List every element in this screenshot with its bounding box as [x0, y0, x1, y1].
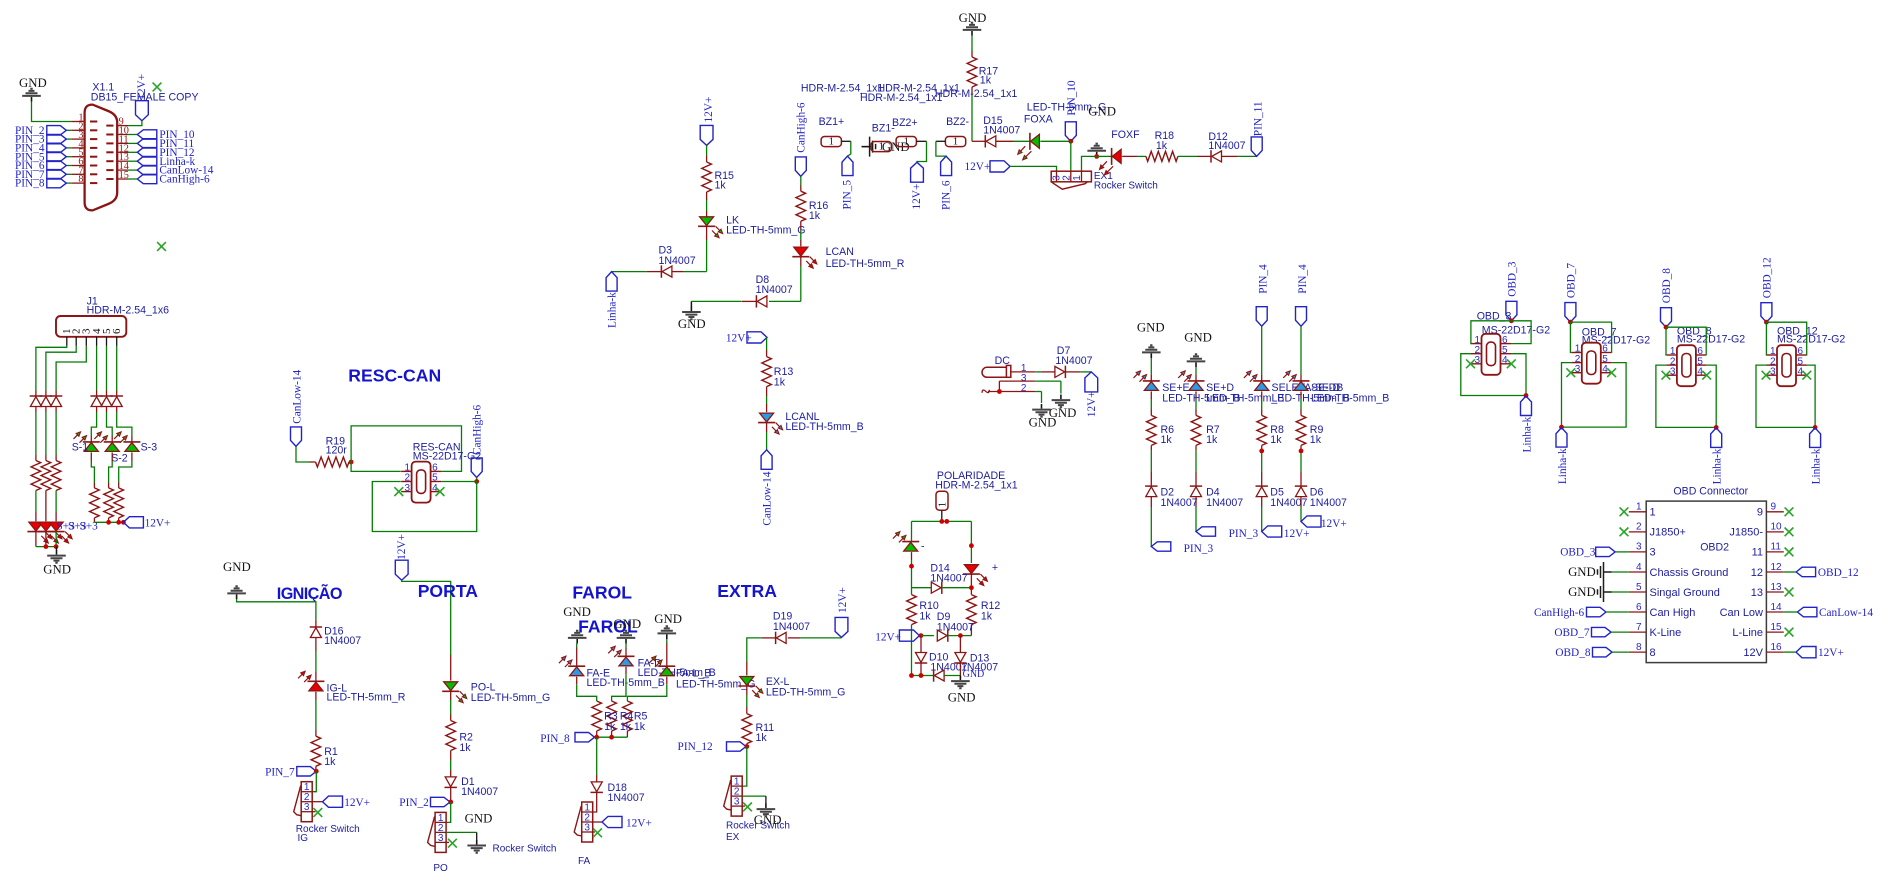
wire to EX-L	[762, 637, 776, 639]
svg-text:4: 4	[1636, 562, 1642, 573]
no-connect X (PO pin 3)	[446, 841, 449, 843]
wire flag to pin 6	[1511, 321, 1531, 344]
svg-text:2: 2	[1636, 522, 1642, 533]
switch Rocker Switch FA	[582, 802, 593, 842]
svg-text:OBD_3: OBD_3	[1506, 261, 1518, 296]
svg-text:12V+: 12V+	[965, 161, 991, 173]
svg-text:S-2: S-2	[111, 453, 128, 465]
svg-text:Rocker Switch: Rocker Switch	[1094, 181, 1158, 192]
svg-text:1k: 1k	[634, 721, 646, 733]
wire	[1195, 367, 1197, 374]
wire pin 2 loop	[1756, 365, 1815, 427]
junction	[1094, 154, 1099, 159]
wire	[35, 407, 37, 413]
wire jog	[111, 452, 113, 461]
pin 4 of J1	[96, 337, 98, 346]
svg-text:HDR-M-2.54_1x6: HDR-M-2.54_1x6	[87, 304, 170, 316]
junction	[919, 633, 924, 638]
wire R10 down	[911, 625, 913, 676]
svg-text:1k: 1k	[1156, 140, 1168, 152]
wire pin 5 loop	[1562, 363, 1627, 428]
svg-text:PORTA: PORTA	[418, 581, 479, 601]
wire	[666, 639, 668, 643]
svg-text:OBD_12: OBD_12	[1761, 257, 1773, 298]
svg-text:Linha-k: Linha-k	[1521, 416, 1533, 452]
resistor (right group 3)	[114, 488, 124, 518]
pin 1 of X1.1	[71, 121, 85, 123]
pin 1 of OBD2	[1629, 511, 1646, 513]
svg-text:Chassis Ground: Chassis Ground	[1650, 567, 1729, 579]
svg-text:1N4007: 1N4007	[461, 786, 498, 798]
svg-text:PIN_5: PIN_5	[842, 180, 854, 210]
wire flag to pin 1	[1471, 321, 1512, 344]
svg-text:3: 3	[405, 483, 411, 494]
wire jog	[625, 667, 627, 675]
net flag Linha-k	[1711, 428, 1722, 448]
ground GND (D8)	[690, 301, 692, 306]
wire D7 to 12V+	[1065, 371, 1080, 373]
wire	[1150, 445, 1152, 450]
svg-text:12V+: 12V+	[145, 518, 171, 530]
svg-text:GND: GND	[43, 563, 71, 577]
svg-text:PIN_6: PIN_6	[940, 180, 952, 210]
wire	[766, 337, 768, 350]
LED SE+E LED-TH-5mm_B	[1143, 380, 1160, 382]
svg-text:1k: 1k	[1206, 434, 1218, 446]
no-connect X (EX pin 3)	[742, 805, 745, 807]
svg-text:PIN_8: PIN_8	[15, 178, 45, 190]
net flag CanHigh-6	[128, 178, 137, 180]
wire 12V+ to EX1 pin 3	[1010, 166, 1057, 171]
svg-text:1N4007: 1N4007	[756, 284, 793, 296]
svg-text:GND: GND	[654, 612, 682, 626]
svg-text:10: 10	[1771, 522, 1783, 533]
svg-text:15: 15	[1771, 622, 1783, 633]
pin 13 of X1.1	[116, 160, 128, 162]
pin 6 of J1	[116, 337, 118, 346]
svg-text:Linha-k: Linha-k	[1712, 448, 1724, 484]
wire	[970, 574, 972, 595]
wire jog	[91, 412, 96, 436]
svg-text:PO: PO	[433, 863, 448, 874]
svg-text:3: 3	[584, 822, 590, 833]
svg-text:8: 8	[1636, 642, 1642, 653]
wire flag to pin 6	[1666, 327, 1706, 355]
diode (right group 1)	[90, 395, 102, 397]
wire	[800, 221, 802, 230]
svg-text:GND: GND	[1568, 585, 1596, 599]
svg-text:3: 3	[1636, 542, 1642, 553]
svg-text:CanHigh-6: CanHigh-6	[795, 102, 807, 153]
junction	[349, 460, 354, 465]
svg-text:Linha-k: Linha-k	[1557, 448, 1569, 484]
wire pin 2 loop	[1656, 365, 1716, 427]
wire	[1150, 497, 1152, 507]
junction	[1764, 320, 1769, 325]
power flag 12V+ (IG)	[312, 801, 322, 803]
svg-text:12V+: 12V+	[344, 797, 370, 809]
svg-text:OBD_12: OBD_12	[1818, 567, 1859, 579]
svg-text:1: 1	[1636, 502, 1642, 513]
svg-text:RESC-CAN: RESC-CAN	[348, 366, 441, 386]
wire	[625, 644, 627, 648]
svg-text:6: 6	[111, 328, 123, 334]
svg-text:CanHigh-6: CanHigh-6	[471, 404, 483, 455]
net flag CanLow-14 (LCANL)	[761, 450, 772, 470]
wire	[911, 552, 913, 560]
pin 2 of J1	[75, 337, 77, 346]
svg-text:12V+: 12V+	[136, 74, 148, 100]
wire	[1261, 326, 1263, 374]
ground GND (J1 LEDs)	[56, 547, 58, 551]
pin 8 of OBD2	[1629, 651, 1646, 653]
power flag 12V+ (DC)	[1085, 372, 1098, 392]
svg-text:GND: GND	[563, 605, 591, 619]
LED SE-DB LED-TH-5mm_B	[1293, 380, 1310, 382]
svg-text:3: 3	[1770, 366, 1776, 377]
wire	[450, 787, 452, 802]
pin 7 of OBD2	[1629, 631, 1646, 633]
pin 11 of X1.1	[116, 142, 128, 144]
svg-text:Linha-k: Linha-k	[1810, 448, 1822, 484]
svg-text:1k: 1k	[981, 610, 993, 622]
LED S-1 (green)	[83, 441, 100, 443]
svg-text:1N4007: 1N4007	[1161, 497, 1198, 509]
wire BZ2+ to 12V+	[916, 140, 926, 142]
junction	[448, 800, 453, 805]
wire / power flag 12V+ (chain4)	[1300, 507, 1302, 522]
net flag OBD_12 (pin 12)	[1796, 567, 1816, 577]
svg-text:2: 2	[1021, 383, 1027, 394]
wire right branch	[970, 521, 972, 563]
no-connect X pin 2	[1620, 528, 1629, 537]
svg-text:OBD_7: OBD_7	[1565, 263, 1577, 298]
ground GND (BZ1-)	[862, 137, 876, 157]
wire to rocker PO	[446, 802, 451, 822]
pin 3 of X1.1	[71, 138, 85, 140]
resistor (left group 1)	[31, 461, 41, 491]
wire	[1300, 497, 1302, 507]
wire pin 5 loop	[1706, 365, 1716, 427]
svg-text:J1850-: J1850-	[1729, 527, 1763, 539]
svg-text:1k: 1k	[1310, 434, 1322, 446]
LED polaridade red (+)	[963, 573, 980, 575]
pin 6 of OBD2	[1629, 611, 1646, 613]
svg-text:BZ1+: BZ1+	[819, 116, 845, 128]
svg-text:1: 1	[829, 137, 834, 148]
wire BZ2- to PIN_6	[936, 140, 946, 142]
diode (left group 1)	[30, 395, 42, 397]
wire R18 to D12	[1178, 155, 1197, 157]
junction	[997, 389, 1002, 394]
svg-text:15: 15	[119, 170, 129, 181]
wire	[450, 691, 452, 700]
net flag PIN_3	[66, 138, 71, 140]
svg-text:16: 16	[1771, 642, 1783, 653]
wire left branch	[911, 521, 913, 541]
net flag PIN_4	[66, 147, 71, 149]
svg-text:1k: 1k	[604, 721, 616, 733]
LED SELETA-SE-D LED-TH-5mm_B	[1253, 380, 1270, 382]
svg-text:FOXA: FOXA	[1024, 114, 1054, 126]
svg-text:PIN_11: PIN_11	[1252, 101, 1264, 136]
svg-text:GND: GND	[678, 317, 706, 331]
svg-text:HDR-M-2.54_1x1: HDR-M-2.54_1x1	[860, 92, 943, 104]
svg-text:1N4007: 1N4007	[1206, 497, 1243, 509]
svg-text:8: 8	[78, 174, 83, 185]
wire CanHigh-6 to pin 5	[441, 481, 477, 483]
wire	[35, 491, 37, 513]
svg-text:1: 1	[953, 137, 958, 148]
svg-text:11: 11	[1752, 547, 1763, 559]
svg-text:LED-TH-5mm_G: LED-TH-5mm_G	[726, 224, 805, 236]
wire	[1150, 391, 1152, 399]
svg-text:J1850+: J1850+	[1650, 527, 1686, 539]
resistor (left group 2)	[41, 461, 51, 491]
wire pin 5 loop	[1511, 354, 1526, 396]
svg-text:120r: 120r	[326, 445, 348, 457]
svg-text:1N4007: 1N4007	[983, 124, 1020, 136]
wire bottom right group	[94, 521, 123, 523]
wire to switch pin 1	[351, 462, 401, 471]
junction	[969, 543, 974, 548]
wire D3 to Linha-k	[647, 271, 662, 273]
no-connect X (IG pin 3)	[312, 811, 315, 813]
net flag PIN_8	[66, 182, 71, 184]
junction	[1664, 325, 1669, 330]
svg-text:Can Low: Can Low	[1720, 607, 1763, 619]
svg-text:OBD_3: OBD_3	[1560, 547, 1595, 559]
LED S+3 (red, 1)	[27, 531, 44, 533]
wire J1 pin2	[46, 346, 76, 391]
svg-text:GND: GND	[1088, 104, 1116, 118]
power flag 12V+ (FA)	[593, 821, 602, 823]
svg-text:PIN_4: PIN_4	[1297, 264, 1309, 294]
svg-text:1k: 1k	[1270, 434, 1282, 446]
svg-text:+: +	[992, 562, 998, 574]
svg-text:Linha-k: Linha-k	[606, 292, 618, 328]
wire	[45, 491, 47, 513]
wire	[1261, 391, 1263, 399]
no-connect X pin 13	[1785, 588, 1794, 597]
junction	[1559, 425, 1564, 430]
svg-text:OBD_7: OBD_7	[1554, 627, 1589, 639]
diode (right group 3)	[111, 395, 123, 397]
net flag PIN_7	[66, 173, 71, 175]
wire	[116, 346, 118, 391]
diode (left group 3)	[50, 395, 62, 397]
pin 4 of X1.1	[71, 147, 85, 149]
wire down to D18	[596, 737, 598, 775]
no-connect X pin 1	[1620, 507, 1629, 516]
svg-text:PIN_3: PIN_3	[1184, 543, 1214, 555]
junction	[939, 519, 944, 524]
LED S-2 (green)	[104, 441, 121, 443]
wire	[96, 346, 98, 391]
svg-text:Singal Ground: Singal Ground	[1650, 587, 1720, 599]
svg-text:IG: IG	[298, 833, 309, 844]
svg-text:EX: EX	[726, 832, 740, 843]
pin 5 of J1	[106, 337, 108, 346]
junction	[1509, 318, 1514, 323]
net flag PIN_12	[128, 151, 137, 153]
wire	[1300, 326, 1302, 374]
no-connect X pin 4	[1702, 371, 1711, 380]
pin 5 of X1.1	[71, 156, 85, 158]
LED FA-D LED-TH-5mm_B	[618, 655, 635, 657]
ground GND (DC pin 2)	[1041, 404, 1043, 409]
wire jog	[90, 452, 92, 461]
svg-text:12V+: 12V+	[1321, 518, 1347, 530]
wire	[706, 145, 708, 156]
wire loop pins 2-5	[372, 482, 476, 532]
wire LCAN to D8	[800, 257, 802, 266]
wire to rocker EX	[742, 747, 747, 787]
svg-text:1k: 1k	[809, 210, 821, 222]
wire to rocker FA	[593, 792, 597, 812]
net flag Linha-k	[1521, 396, 1532, 416]
svg-text:PIN_12: PIN_12	[678, 741, 713, 753]
no-connect X pin 4	[1507, 359, 1516, 368]
wire pin 5 loop	[1807, 365, 1816, 427]
svg-text:OBD2: OBD2	[1700, 542, 1729, 554]
wire bottom FAROL	[595, 736, 628, 738]
pin 2 of X1.1	[71, 129, 85, 131]
pin 15 of X1.1	[116, 178, 128, 180]
LED S-3 (green)	[123, 441, 140, 443]
svg-text:OBD_8: OBD_8	[1661, 268, 1673, 303]
svg-text:L-Line: L-Line	[1732, 627, 1763, 639]
wire	[1261, 445, 1263, 450]
junction	[594, 735, 599, 740]
svg-text:1k: 1k	[324, 756, 336, 768]
svg-text:PIN_4: PIN_4	[1258, 264, 1270, 294]
wire D15 to FOXA	[996, 140, 1013, 142]
net flag PIN_6	[941, 156, 952, 176]
junction	[1259, 449, 1264, 454]
svg-text:GND: GND	[1184, 331, 1212, 345]
LED S+3 (red, 3)	[48, 531, 65, 533]
svg-text:12: 12	[1751, 567, 1763, 579]
pin 9 of OBD2	[1766, 511, 1783, 513]
wire jog	[666, 677, 668, 685]
svg-text:GND: GND	[465, 811, 493, 825]
svg-text:S-3: S-3	[141, 442, 158, 454]
no-connect X pin 3	[1762, 371, 1771, 380]
wire 12V+ to D19	[800, 637, 842, 639]
svg-text:1N4007: 1N4007	[1310, 497, 1347, 509]
svg-text:OBD_8: OBD_8	[1555, 647, 1590, 659]
wire R17 down to D15	[971, 87, 973, 95]
svg-text:CanHigh-6: CanHigh-6	[1534, 607, 1585, 619]
wire / net flag PIN_3 (chain1)	[1150, 507, 1152, 547]
no-connect X near 12V+	[153, 83, 162, 92]
svg-text:1N4007: 1N4007	[659, 255, 696, 267]
wire pin3-pin2 link	[998, 381, 1000, 391]
svg-text:3: 3	[1474, 355, 1480, 366]
no-connect X pin 11	[1785, 548, 1794, 557]
junction	[474, 479, 479, 484]
no-connect X pin 3	[1566, 368, 1575, 377]
resistor R5 1k	[623, 701, 633, 731]
svg-text:1: 1	[1650, 507, 1656, 519]
pin 5 of OBD2	[1629, 591, 1646, 593]
wire to rocker pin 1	[312, 771, 316, 791]
svg-text:FA: FA	[578, 856, 591, 867]
no-connect X below DB15	[157, 242, 166, 251]
wire bottom left group	[36, 546, 57, 548]
pin 1 of J1	[66, 337, 68, 346]
svg-text:PIN_8: PIN_8	[540, 733, 570, 745]
svg-text:LED-TH-5mm_B: LED-TH-5mm_B	[785, 421, 863, 433]
svg-text:BZ2-: BZ2-	[946, 116, 969, 128]
diode D11 (bottom horizontal)	[912, 675, 934, 677]
wire / power flag 12V+ (chain3)	[1261, 507, 1263, 532]
svg-text:1: 1	[879, 142, 884, 153]
svg-text:12V+: 12V+	[626, 817, 652, 829]
wire LK down	[706, 226, 708, 240]
svg-text:1N4007: 1N4007	[1208, 140, 1245, 152]
svg-text:PIN_2: PIN_2	[399, 797, 429, 809]
wire flag to pin 6	[1766, 322, 1806, 355]
svg-text:Can High: Can High	[1650, 607, 1696, 619]
wire junction to rocker EX1 pin 2	[1070, 141, 1072, 171]
svg-text:1k: 1k	[715, 179, 727, 191]
pin 11 of OBD2	[1766, 551, 1783, 553]
svg-text:1: 1	[938, 502, 949, 507]
pin 10 of X1.1	[116, 134, 128, 136]
svg-text:HDR-M-2.54_1x1: HDR-M-2.54_1x1	[935, 479, 1018, 491]
wire pin 2 loop	[1562, 363, 1572, 428]
svg-text:K-Line: K-Line	[1650, 627, 1682, 639]
svg-text:12V+: 12V+	[911, 184, 923, 210]
svg-text:3: 3	[1650, 547, 1656, 559]
svg-text:LED-TH-5mm_R: LED-TH-5mm_R	[327, 692, 406, 704]
svg-text:1k: 1k	[1161, 434, 1173, 446]
svg-text:1k: 1k	[620, 721, 632, 733]
wire jog	[117, 412, 132, 436]
resistor (right group 2)	[104, 488, 114, 518]
junction	[744, 744, 749, 749]
wire pin3 to GND	[1060, 381, 1062, 393]
net flag PIN_2	[66, 129, 71, 131]
no-connect X pin 4	[1607, 368, 1616, 377]
svg-text:1k: 1k	[980, 74, 992, 86]
svg-text:1k: 1k	[756, 732, 768, 744]
pin 14 of OBD2	[1766, 611, 1783, 613]
svg-text:1k: 1k	[774, 376, 786, 388]
wire to D3	[683, 271, 707, 273]
wire jog	[107, 412, 113, 436]
svg-text:GND: GND	[948, 691, 976, 705]
wire	[55, 532, 57, 547]
LED polaridade green (-)	[902, 541, 919, 543]
LED SE+D LED-TH-5mm_B	[1188, 380, 1205, 382]
svg-text:HDR-M-2.54_1x1: HDR-M-2.54_1x1	[935, 88, 1018, 100]
svg-text:1N4007: 1N4007	[1270, 497, 1307, 509]
wire GND to D16	[237, 599, 316, 621]
svg-text:12: 12	[1771, 562, 1783, 573]
svg-text:1N4007: 1N4007	[930, 572, 967, 584]
svg-text:GND: GND	[963, 669, 985, 680]
pin 9 of X1.1	[116, 125, 128, 127]
pin 10 of OBD2	[1766, 531, 1783, 533]
svg-text:CanLow-14: CanLow-14	[1819, 607, 1873, 619]
net flag PIN_5	[842, 156, 853, 176]
junction	[1068, 139, 1073, 144]
svg-text:12V: 12V	[1743, 647, 1763, 659]
junction	[969, 585, 974, 590]
